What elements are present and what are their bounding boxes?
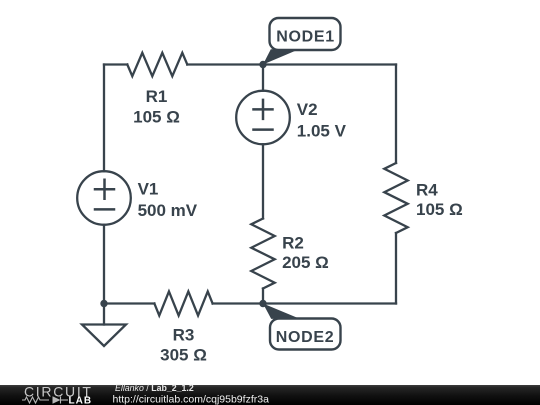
svg-text:R1: R1 xyxy=(146,87,168,106)
node junction dot NODE1 xyxy=(259,61,266,68)
NODE1 flag box xyxy=(263,18,341,65)
svg-text:105 Ω: 105 Ω xyxy=(133,107,180,126)
resistor R3 xyxy=(154,292,212,316)
voltage source V1 xyxy=(77,171,131,225)
svg-text:R4: R4 xyxy=(416,181,438,200)
svg-text:NODE1: NODE1 xyxy=(276,29,335,46)
svg-text:R3: R3 xyxy=(173,326,195,345)
wire right lower (R4 to bottom-right corner) xyxy=(395,233,397,304)
svg-text:Ellanko / Lab_2_1.2: Ellanko / Lab_2_1.2 xyxy=(115,383,194,393)
wire left lower (V1 minus terminal down to ground junction) xyxy=(103,225,105,304)
node junction dot NODE2 xyxy=(259,300,266,307)
wire right upper (top-right corner to R4) xyxy=(395,65,397,164)
CircuitLab logo mini schematic (resistor + diode) xyxy=(22,397,68,404)
ground stub wire xyxy=(103,304,105,325)
svg-text:205 Ω: 205 Ω xyxy=(282,253,329,272)
resistor R4 xyxy=(384,163,407,233)
svg-text:http://circuitlab.com/cqj95b9f: http://circuitlab.com/cqj95b9fzfr3a xyxy=(113,393,270,405)
wire middle (V2 minus down to R2) xyxy=(262,144,264,218)
wire middle lower (R2 to NODE2) xyxy=(262,289,264,304)
V1 plus sign xyxy=(95,180,114,199)
V2 minus sign xyxy=(254,128,273,131)
node junction dot at ground xyxy=(100,300,107,307)
resistor R1 xyxy=(127,53,187,76)
svg-text:R2: R2 xyxy=(282,234,304,253)
V2 plus sign xyxy=(254,100,273,119)
svg-text:V1: V1 xyxy=(138,180,159,199)
svg-text:305 Ω: 305 Ω xyxy=(160,346,207,365)
V1 minus sign xyxy=(95,208,114,211)
svg-text:NODE2: NODE2 xyxy=(276,329,335,346)
voltage source V2 xyxy=(236,91,290,145)
svg-text:1.05 V: 1.05 V xyxy=(297,121,347,140)
ground symbol xyxy=(82,325,126,347)
svg-text:LAB: LAB xyxy=(69,396,93,405)
NODE2 flag box xyxy=(263,304,341,350)
resistor R2 xyxy=(251,219,274,289)
wire top-left horizontal (node A top rail) xyxy=(104,63,127,65)
svg-text:105 Ω: 105 Ω xyxy=(416,200,463,219)
wire top rail R1 to NODE1 to top-right corner xyxy=(187,63,396,65)
wire middle upper (NODE1 down to V2 plus terminal) xyxy=(262,65,264,91)
wire left upper (top-left corner down to V1 plus terminal) xyxy=(103,65,105,172)
wire bottom-left (ground junction to R3) xyxy=(104,302,154,304)
svg-text:V2: V2 xyxy=(297,100,318,119)
wire bottom rail (R3 to NODE2 to bottom-right corner) xyxy=(213,302,396,304)
svg-text:500 mV: 500 mV xyxy=(138,201,198,220)
